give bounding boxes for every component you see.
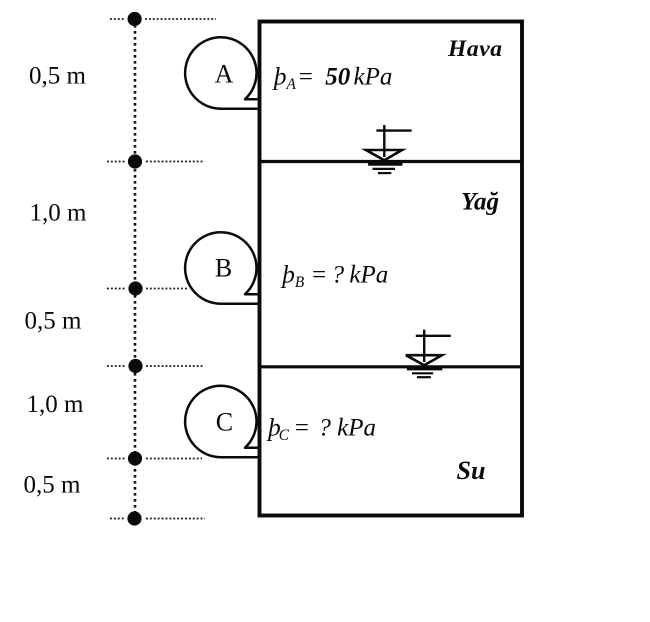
pressure gauge A xyxy=(185,37,259,108)
tick dashed line row 2 xyxy=(107,161,125,163)
pressure gauge B xyxy=(185,232,259,303)
vertical dotted measuring line xyxy=(134,19,137,519)
tick dashed line row 6 xyxy=(110,518,125,520)
svg-text:0,5 m: 0,5 m xyxy=(24,472,82,499)
measuring dot 3 xyxy=(128,281,142,295)
tank outline xyxy=(260,22,523,516)
svg-text:A: A xyxy=(215,60,234,89)
svg-text:B: B xyxy=(215,254,232,283)
tick dashed line row 1 xyxy=(107,19,216,519)
svg-text:Hava: Hava xyxy=(447,36,503,62)
tick dashed line row 4 xyxy=(107,365,125,367)
svg-text:Yağ: Yağ xyxy=(461,189,499,216)
air-oil interface line xyxy=(260,160,523,163)
measuring dot 5 xyxy=(128,451,142,465)
free-surface symbol (oil/water) xyxy=(406,330,451,378)
pressure gauge C xyxy=(185,386,259,457)
measuring dot 6 xyxy=(127,511,141,525)
tick dashed line row 5 xyxy=(107,458,125,460)
svg-text:0,5 m: 0,5 m xyxy=(25,308,83,335)
svg-text:1,0 m: 1,0 m xyxy=(30,200,88,227)
measuring dot 2 xyxy=(128,154,142,168)
measuring dot 1 xyxy=(128,12,142,26)
svg-text:þA = 50 kPa: þA = 50 kPa xyxy=(272,64,392,94)
tick dashed line row 3 xyxy=(107,288,125,290)
svg-text:1,0 m: 1,0 m xyxy=(27,391,85,418)
measuring dot 4 xyxy=(128,359,142,373)
svg-text:0,5 m: 0,5 m xyxy=(29,63,87,90)
oil-water interface line xyxy=(260,365,523,368)
svg-text:Su: Su xyxy=(457,456,486,485)
free-surface symbol (air/oil) xyxy=(366,125,412,173)
svg-text:C: C xyxy=(216,408,233,437)
